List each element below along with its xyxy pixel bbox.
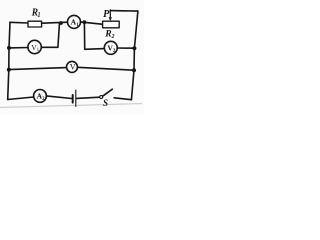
wire A1 to rheostat xyxy=(80,22,103,24)
voltmeter V2 xyxy=(104,41,117,54)
wire right vertical xyxy=(131,11,138,100)
ammeter A1 xyxy=(68,15,81,28)
svg-text:S: S xyxy=(103,98,108,108)
wire R1 to A1 xyxy=(42,22,68,23)
wire branch to V2 left terminal xyxy=(84,22,104,49)
voltmeter V xyxy=(67,61,78,72)
wire middle V right xyxy=(77,67,134,70)
wire V1 left xyxy=(9,47,28,49)
node junction V on right wire xyxy=(132,68,136,72)
node junction V1 on left wire xyxy=(7,46,11,50)
voltmeter V1 xyxy=(28,40,41,53)
ammeter A2 xyxy=(34,90,47,103)
wire slider to top right xyxy=(110,10,138,13)
wire middle V left xyxy=(9,68,67,70)
battery cell xyxy=(73,90,76,106)
node junction V on left wire xyxy=(7,68,11,72)
wire top left to R1 xyxy=(10,21,29,24)
rheostat slider arrow P xyxy=(109,10,112,21)
wire branch to V1 right terminal xyxy=(41,23,59,47)
node junction right of A1 xyxy=(83,20,87,24)
rheostat R2 box xyxy=(103,21,120,28)
wire battery to switch xyxy=(76,97,99,98)
switch S xyxy=(100,89,113,98)
node junction left of A1 xyxy=(59,21,63,25)
svg-text:P: P xyxy=(103,9,110,20)
resistor R1 xyxy=(28,21,42,27)
wire A2 to battery xyxy=(46,96,72,99)
wire bottom left to A2 xyxy=(8,97,34,100)
wire V2 right xyxy=(117,47,134,49)
svg-text:V: V xyxy=(70,63,76,72)
node junction V2 on right wire xyxy=(132,46,136,50)
wire switch to bottom right corner xyxy=(114,98,131,100)
wire left vertical xyxy=(8,22,10,99)
